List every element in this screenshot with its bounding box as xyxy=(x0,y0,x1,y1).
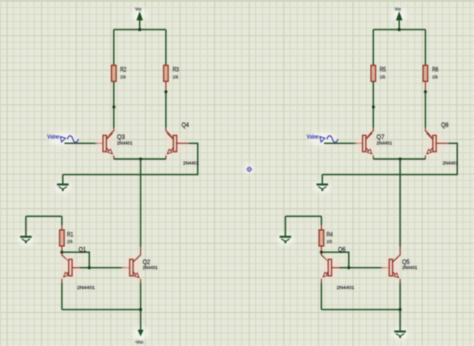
svg-text:Q4: Q4 xyxy=(182,122,190,129)
svg-text:R3: R3 xyxy=(173,66,180,73)
svg-text:R6: R6 xyxy=(432,66,439,73)
svg-text:R5: R5 xyxy=(380,66,387,73)
svg-text:Q3: Q3 xyxy=(117,134,125,141)
svg-text:Q8: Q8 xyxy=(441,122,449,129)
svg-text:Q5: Q5 xyxy=(402,259,410,266)
svg-text:Q1: Q1 xyxy=(79,247,87,254)
svg-text:Q2: Q2 xyxy=(143,259,151,266)
svg-text:Q7: Q7 xyxy=(377,134,385,141)
svg-text:R1: R1 xyxy=(67,232,74,239)
svg-text:Q6: Q6 xyxy=(338,247,346,254)
svg-text:-Vcc: -Vcc xyxy=(135,339,144,344)
svg-text:R4: R4 xyxy=(327,232,334,239)
svg-text:R2: R2 xyxy=(120,66,127,73)
